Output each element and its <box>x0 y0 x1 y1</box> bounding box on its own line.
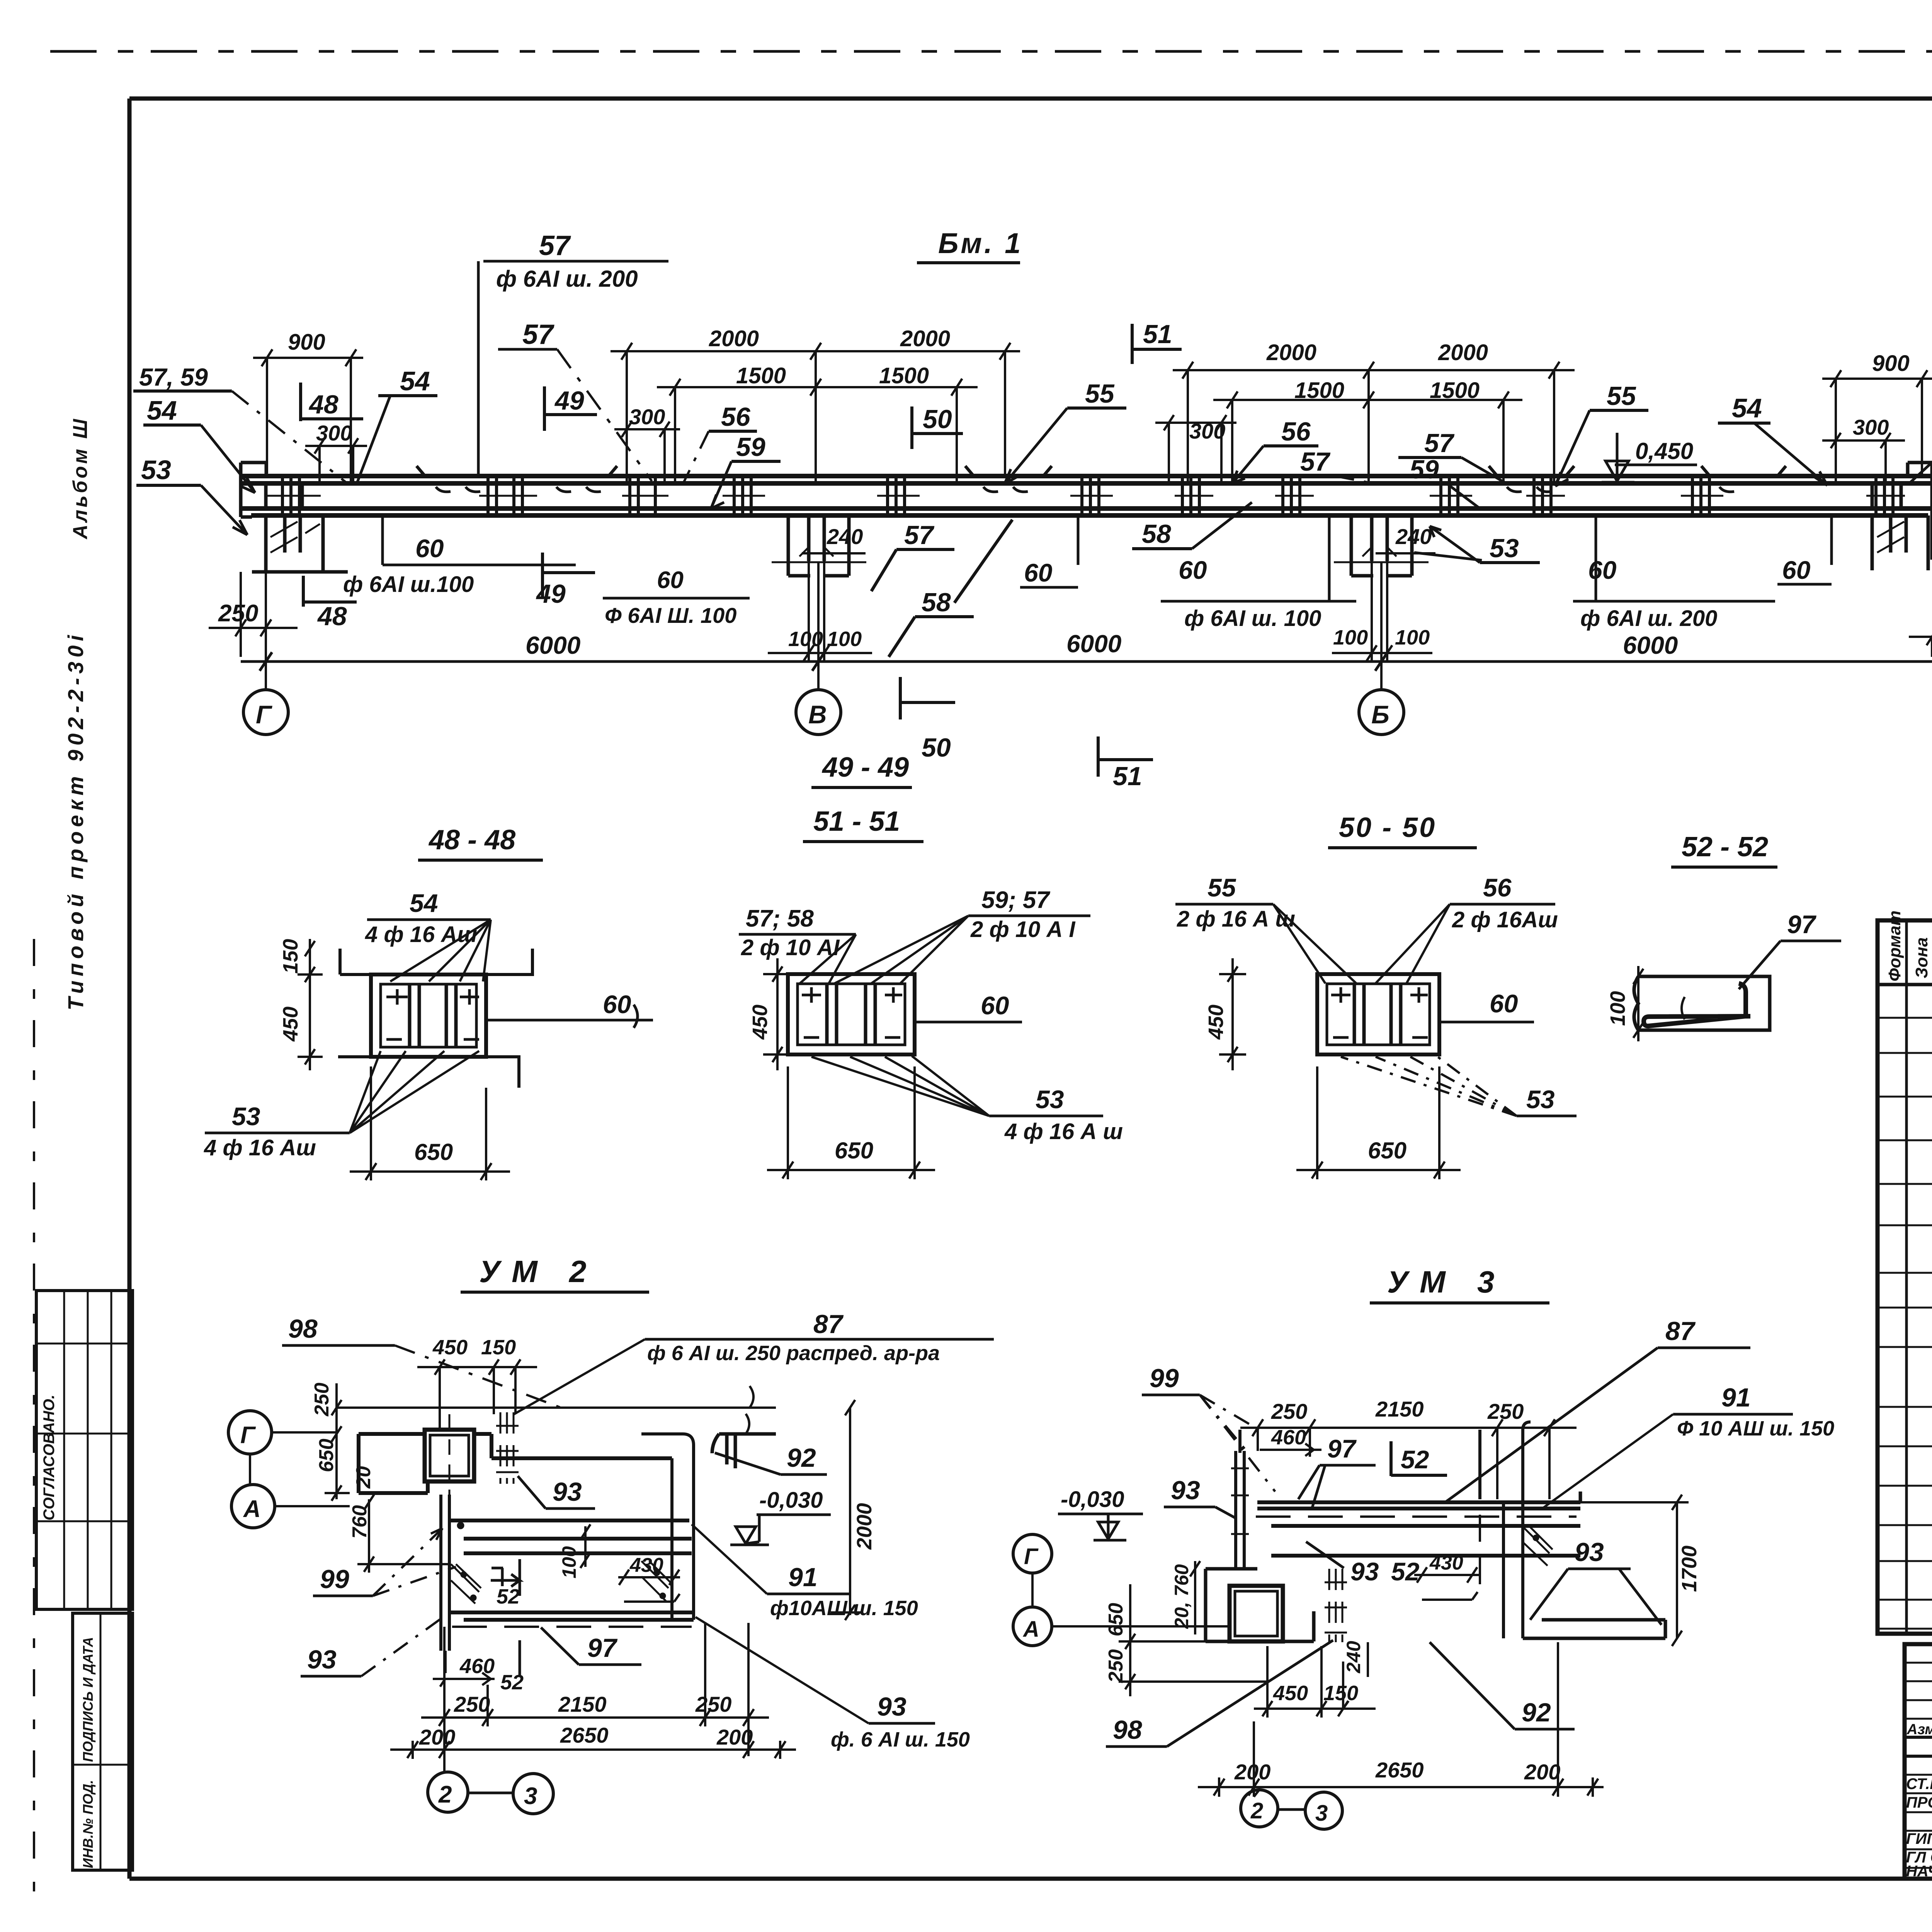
table header bottom line <box>1878 983 1932 986</box>
svg-text:92: 92 <box>1522 1698 1551 1727</box>
svg-text:Бм. 1: Бм. 1 <box>938 227 1023 259</box>
UM2 title <box>461 1254 649 1292</box>
svg-text:2150: 2150 <box>558 1692 607 1716</box>
label 98 <box>282 1314 566 1410</box>
callout 48 left <box>301 383 363 421</box>
svg-text:49: 49 <box>536 579 566 609</box>
label 92 <box>715 1443 827 1475</box>
svg-text:150: 150 <box>481 1336 516 1359</box>
label 59 left-mid <box>711 432 781 509</box>
left group dim 2000+2000 <box>611 326 1020 482</box>
svg-text:6000: 6000 <box>526 631 580 659</box>
svg-text:650: 650 <box>1105 1603 1127 1636</box>
svg-text:55: 55 <box>1207 873 1236 902</box>
svg-text:54: 54 <box>400 366 430 396</box>
svg-text:57: 57 <box>522 319 554 350</box>
label 54 right <box>1718 393 1827 485</box>
svg-text:97: 97 <box>587 1633 618 1663</box>
svg-text:Типовой проект 902-2-30i: Типовой проект 902-2-30i <box>63 631 88 1010</box>
label 93 bottom right leader <box>696 1617 970 1751</box>
svg-text:3: 3 <box>524 1783 537 1810</box>
svg-text:900: 900 <box>288 330 325 355</box>
svg-text:250: 250 <box>695 1692 731 1716</box>
stirrup hatch groups across beam <box>282 476 1893 515</box>
svg-text:99: 99 <box>1150 1364 1179 1393</box>
svg-text:58: 58 <box>1142 519 1171 549</box>
svg-text:250: 250 <box>1105 1649 1127 1683</box>
svg-text:-0,030: -0,030 <box>1061 1487 1124 1512</box>
svg-text:2 ф 16Аш: 2 ф 16Аш <box>1452 907 1558 932</box>
sec48 label 54 4f16A <box>365 889 491 981</box>
UM3 detail <box>1013 1265 1834 1829</box>
svg-text:650: 650 <box>315 1439 338 1472</box>
svg-text:430: 430 <box>1429 1552 1463 1574</box>
label 57 below <box>871 520 954 591</box>
svg-text:ф 6АI ш. 100: ф 6АI ш. 100 <box>1184 606 1321 631</box>
svg-text:60: 60 <box>1588 556 1617 584</box>
svg-text:УМ 3: УМ 3 <box>1387 1265 1506 1299</box>
svg-text:91: 91 <box>788 1563 818 1592</box>
svg-text:48: 48 <box>317 602 347 631</box>
UM3 left wall verticals <box>1236 1430 1244 1569</box>
UM2 dim 52 mid with tick <box>491 1559 520 1608</box>
UM2 dim 2000 right <box>831 1400 876 1620</box>
svg-text:4 ф 16 Аш: 4 ф 16 Аш <box>365 922 477 947</box>
svg-text:450: 450 <box>748 1005 772 1040</box>
label 87 UM3 <box>1445 1316 1750 1502</box>
dim 250 right <box>1909 572 1932 657</box>
svg-text:93: 93 <box>1575 1537 1604 1567</box>
label 91 UM3 <box>1542 1383 1834 1509</box>
svg-text:49: 49 <box>554 386 584 415</box>
svg-text:2000: 2000 <box>1266 340 1316 365</box>
axis circle G UM2 <box>228 1411 336 1485</box>
dim 900 right <box>1822 351 1932 482</box>
annotations below beam <box>209 502 1932 791</box>
label 93 mid lower <box>1306 1542 1420 1586</box>
svg-text:250: 250 <box>1271 1399 1307 1423</box>
axis circle G UM3 <box>1013 1534 1052 1607</box>
left group dim 1500+1500 <box>657 351 978 482</box>
svg-text:57, 59: 57, 59 <box>139 363 208 391</box>
label 93 right <box>1530 1537 1662 1625</box>
UM3 column square <box>1230 1586 1283 1641</box>
callout 51 above beam <box>1132 320 1182 364</box>
callout 49 below + rebar 60 group 2 <box>536 553 750 628</box>
svg-text:4 ф 16 Аш: 4 ф 16 Аш <box>204 1135 316 1160</box>
monolithic joint clip marks on slab <box>436 487 1734 492</box>
section title 52-52 <box>1671 832 1777 867</box>
callout 49 above beam <box>544 386 597 431</box>
section title 50-50 <box>1328 812 1477 848</box>
sec52 label 97 <box>1739 910 1841 989</box>
dim 300 left <box>305 421 367 482</box>
UM3 rebar strip hatched <box>1329 1569 1342 1642</box>
UM2 column square <box>425 1414 474 1495</box>
svg-text:53: 53 <box>1526 1085 1554 1114</box>
sec48 label 60 <box>486 990 653 1028</box>
svg-text:56: 56 <box>1483 873 1512 902</box>
sec52 dim 100 <box>1606 966 1643 1041</box>
UM2 detail <box>228 1254 994 1814</box>
UM3 slab dashed centerline <box>1256 1515 1577 1518</box>
beam bottom chord lines <box>241 509 1932 515</box>
svg-text:53: 53 <box>1036 1085 1064 1114</box>
personnel rows <box>1906 1776 1932 1880</box>
dim 240 stub2 <box>802 524 866 553</box>
svg-text:Зона: Зона <box>1912 937 1931 978</box>
svg-text:650: 650 <box>835 1138 873 1163</box>
svg-text:57: 57 <box>904 520 935 550</box>
sec51 dim 450 <box>748 958 790 1070</box>
svg-text:2 ф 10 А I: 2 ф 10 А I <box>970 917 1076 942</box>
svg-text:55: 55 <box>1607 381 1636 411</box>
svg-text:200: 200 <box>1524 1760 1560 1784</box>
sec48 label 53 4f16A <box>204 1051 479 1160</box>
sec51 body <box>788 974 915 1054</box>
svg-text:2: 2 <box>438 1781 452 1808</box>
sec51 label 57;58 <box>739 905 856 983</box>
axis circle 2 <box>428 1772 468 1812</box>
label 99 UM3 <box>1142 1364 1275 1492</box>
UM3 lower-left outline <box>1206 1569 1314 1641</box>
svg-text:52: 52 <box>1391 1557 1420 1586</box>
dimensions above beam <box>133 230 1932 535</box>
label 57,59 right <box>1909 401 1932 484</box>
svg-text:150: 150 <box>279 939 302 974</box>
svg-text:93: 93 <box>1350 1557 1379 1586</box>
stirrup cross ties <box>267 495 1905 497</box>
svg-text:93: 93 <box>877 1692 906 1721</box>
UM3 left dims 650 250 20,760 <box>1105 1561 1267 1696</box>
section title 48-48 <box>418 825 543 860</box>
svg-text:6000: 6000 <box>1066 630 1121 658</box>
svg-text:ф. 6 АI ш. 150: ф. 6 АI ш. 150 <box>831 1728 970 1751</box>
dim 900 left <box>253 330 363 482</box>
svg-text:450: 450 <box>279 1007 302 1042</box>
svg-text:97: 97 <box>1787 910 1817 939</box>
label 93 lower-left <box>301 1619 440 1676</box>
UM3 slab horizontals <box>1257 1502 1580 1556</box>
axis circle B <box>1359 690 1404 735</box>
beam top chord lines <box>241 476 1932 483</box>
sec51 label 60 <box>915 991 1022 1022</box>
beam Bm.1 title <box>917 227 1023 263</box>
svg-text:92: 92 <box>787 1443 816 1473</box>
UM2 hatch patch left <box>451 1564 481 1604</box>
svg-text:20: 20 <box>352 1466 375 1489</box>
label 58 below-left <box>889 520 1012 657</box>
dim 300 right-mid <box>1155 415 1236 482</box>
sec50 label 55 <box>1175 873 1356 983</box>
label 99 <box>313 1522 464 1596</box>
svg-text:93: 93 <box>1171 1476 1200 1505</box>
svg-text:100: 100 <box>1395 626 1430 649</box>
svg-text:59; 57: 59; 57 <box>981 887 1050 913</box>
svg-text:58: 58 <box>922 588 951 617</box>
beam left end step <box>241 463 266 517</box>
svg-text:2: 2 <box>1250 1798 1263 1823</box>
section mark 51 below <box>1098 736 1153 791</box>
svg-text:52: 52 <box>1401 1445 1429 1474</box>
svg-text:1500: 1500 <box>879 363 929 388</box>
svg-text:НАЧ ОТД: НАЧ ОТД <box>1906 1863 1932 1880</box>
sec48 dim 650 <box>350 1066 510 1180</box>
svg-text:60: 60 <box>603 990 631 1019</box>
wall stub 3 below beam <box>1351 515 1412 576</box>
UM2 wall vertical double line <box>441 1495 449 1673</box>
dim 450 150 top <box>417 1336 537 1430</box>
stub3 dim ticks <box>1334 547 1429 562</box>
label 91 f10 <box>692 1524 918 1620</box>
svg-text:54: 54 <box>147 395 177 425</box>
UM2 right verticals <box>641 1434 694 1620</box>
label 57,59 far left <box>133 363 348 484</box>
UM3 top dims 250 2150 250 <box>1240 1397 1577 1499</box>
label 87 with note <box>514 1310 994 1414</box>
pier hatch right <box>1877 522 1904 553</box>
svg-text:СОГЛАСОВАНО.: СОГЛАСОВАНО. <box>41 1395 58 1520</box>
UM2 slab horizontals <box>451 1520 694 1620</box>
label 60 tick mid <box>1020 515 1078 587</box>
dim 300 left-mid <box>614 405 680 482</box>
svg-text:Г: Г <box>256 700 272 729</box>
beam Bm.1 body <box>241 463 1932 576</box>
slab recess notches on top line <box>417 466 1786 476</box>
sec48 body <box>338 949 532 1088</box>
label 54 far left <box>143 395 255 493</box>
svg-text:2000: 2000 <box>1438 340 1488 365</box>
svg-text:ф 6АI ш.100: ф 6АI ш.100 <box>343 572 474 597</box>
sec50 label 60 <box>1439 989 1534 1022</box>
svg-text:900: 900 <box>1872 351 1910 376</box>
header row labels <box>1906 1721 1932 1738</box>
svg-text:УМ 2: УМ 2 <box>479 1254 598 1289</box>
svg-text:48: 48 <box>308 390 338 419</box>
svg-text:54: 54 <box>1732 393 1762 423</box>
svg-text:50 - 50: 50 - 50 <box>1339 812 1436 843</box>
sec50 label 53 <box>1341 1056 1577 1116</box>
svg-text:20, 760: 20, 760 <box>1171 1564 1192 1629</box>
rebar 60 label group 3 <box>1161 515 1356 631</box>
svg-text:200: 200 <box>716 1725 753 1749</box>
svg-text:52: 52 <box>497 1585 520 1608</box>
left margin stamps <box>36 417 133 1870</box>
label 93 UM3 left <box>1164 1476 1236 1519</box>
svg-text:2000: 2000 <box>709 326 759 351</box>
svg-text:А: А <box>1022 1617 1039 1642</box>
svg-text:450: 450 <box>1273 1682 1308 1705</box>
svg-text:87: 87 <box>1665 1316 1696 1346</box>
svg-text:87: 87 <box>813 1310 844 1339</box>
svg-text:А: А <box>243 1496 261 1522</box>
svg-text:450: 450 <box>432 1336 468 1359</box>
svg-text:3: 3 <box>1315 1801 1328 1826</box>
svg-text:49 - 49: 49 - 49 <box>821 752 909 783</box>
svg-text:55: 55 <box>1085 379 1115 408</box>
label 93 mid <box>518 1476 595 1509</box>
sec48 dim 450 <box>279 975 323 1070</box>
UM3 dim 1700 right <box>1580 1495 1701 1646</box>
left support pier below beam <box>252 483 348 572</box>
UM2 dim 100 mid <box>558 1524 590 1578</box>
svg-text:ПРОВЕР.: ПРОВЕР. <box>1906 1794 1932 1811</box>
svg-text:50: 50 <box>923 405 952 434</box>
UM2 dim 460+52 lower <box>433 1640 524 1694</box>
wall stub 2 below beam <box>788 515 849 576</box>
svg-text:56: 56 <box>721 402 751 432</box>
axis circle 3 <box>468 1774 553 1814</box>
axis circle 2 UM3 <box>1241 1790 1278 1827</box>
dim 6000 span G-V <box>241 631 825 671</box>
title block <box>1905 1644 1932 1932</box>
sheet perforation dashed top line <box>50 50 1932 53</box>
UM3 dims 200 2650 200 <box>1198 1642 1604 1797</box>
svg-text:650: 650 <box>414 1139 453 1165</box>
dim 250 left <box>209 572 298 657</box>
svg-text:53: 53 <box>1490 534 1519 563</box>
outer dashed left lower edge <box>33 939 35 1913</box>
sec51 label 53 4f16A <box>811 1056 1123 1144</box>
svg-text:2 ф 10 АI: 2 ф 10 АI <box>741 935 840 960</box>
svg-text:99: 99 <box>320 1565 349 1594</box>
UM3 dim 460 and labels 97 52 <box>1260 1426 1447 1509</box>
svg-text:200: 200 <box>1234 1760 1270 1784</box>
svg-text:В: В <box>808 700 827 729</box>
section title 51-51 <box>803 806 923 842</box>
svg-text:100: 100 <box>1333 626 1368 649</box>
label 57 over 59 center-right <box>1398 429 1507 509</box>
svg-text:СТ.ИНЖЕН: СТ.ИНЖЕН <box>1906 1776 1932 1793</box>
label 60 tick right <box>1777 515 1832 584</box>
sec50 label 56 <box>1376 873 1558 983</box>
label 54 left-top <box>357 366 437 482</box>
dim 6000 span B-A <box>1381 631 1932 671</box>
section mark 50 below <box>900 677 955 762</box>
table outer frame <box>1878 920 1932 1634</box>
svg-text:60: 60 <box>1782 556 1811 584</box>
svg-text:57: 57 <box>1300 447 1331 476</box>
UM3 hatch patch right of 430 <box>1522 1526 1553 1566</box>
svg-text:760: 760 <box>349 1505 371 1539</box>
sec51 label 59;57 <box>835 887 1090 983</box>
label 92 UM3 <box>1430 1642 1575 1729</box>
svg-text:Ф 6АI Ш. 100: Ф 6АI Ш. 100 <box>605 603 736 628</box>
svg-text:51: 51 <box>1143 320 1172 349</box>
svg-text:0,450: 0,450 <box>1635 438 1693 464</box>
svg-text:300: 300 <box>1853 415 1889 439</box>
svg-text:200: 200 <box>419 1725 455 1749</box>
label 56 right-mid <box>1233 417 1318 483</box>
svg-text:2000: 2000 <box>853 1503 876 1550</box>
section title 49-49 <box>811 752 912 787</box>
UM3 dashed axis vertical <box>1479 1515 1481 1584</box>
svg-text:ГИП: ГИП <box>1906 1830 1932 1847</box>
rebar 57 mid-left callout <box>498 319 652 481</box>
svg-text:240: 240 <box>827 524 863 549</box>
axis line G <box>265 572 267 690</box>
UM2 rebar strip 93 hatched <box>500 1412 514 1484</box>
svg-text:60: 60 <box>1490 989 1518 1018</box>
svg-text:250: 250 <box>1487 1399 1524 1423</box>
dim 240 stub3 <box>1376 524 1435 553</box>
UM2 dim 430 <box>618 1554 680 1602</box>
svg-text:60: 60 <box>415 534 444 563</box>
svg-text:Б: Б <box>1371 700 1389 729</box>
svg-text:Ф 10 АШ ш. 150: Ф 10 АШ ш. 150 <box>1677 1417 1834 1440</box>
svg-text:4 ф 16 А ш: 4 ф 16 А ш <box>1004 1119 1123 1144</box>
label 97 <box>541 1628 641 1665</box>
svg-text:1500: 1500 <box>736 363 786 388</box>
svg-text:100: 100 <box>827 628 862 651</box>
svg-text:Г: Г <box>240 1422 256 1449</box>
svg-text:240: 240 <box>1395 524 1432 549</box>
svg-text:ф 6АI ш. 200: ф 6АI ш. 200 <box>496 266 638 292</box>
dim 6000 span V-B <box>818 630 1388 671</box>
svg-text:53: 53 <box>141 455 171 485</box>
UM2 hatch patch right <box>641 1561 672 1602</box>
table row lines <box>1878 1018 1932 1629</box>
svg-text:6000: 6000 <box>1623 631 1678 659</box>
level mark 0.450 <box>1602 433 1697 482</box>
pier hatch left <box>270 522 320 553</box>
svg-text:2650: 2650 <box>1375 1758 1424 1782</box>
axis line B <box>1380 562 1383 690</box>
level mark -0,030 UM3 <box>1058 1487 1143 1540</box>
svg-text:ф 6АI ш. 200: ф 6АI ш. 200 <box>1580 606 1717 631</box>
svg-text:51: 51 <box>1113 762 1142 791</box>
label 55 right <box>1555 381 1648 486</box>
sec50 body <box>1317 974 1439 1054</box>
callout 48 below <box>303 576 357 631</box>
svg-text:460: 460 <box>1271 1426 1306 1449</box>
svg-text:Формат: Формат <box>1885 910 1904 981</box>
axis circle V <box>796 690 841 735</box>
svg-text:100: 100 <box>558 1546 580 1578</box>
beam right end step <box>1908 463 1932 526</box>
label 55 left-of-center <box>1005 379 1126 484</box>
rebar 60 label group 1 <box>343 515 576 597</box>
svg-text:Азм: Азм <box>1906 1721 1932 1738</box>
title block left grid horizontals <box>1905 1663 1932 1719</box>
svg-text:98: 98 <box>288 1314 318 1344</box>
level mark -0,030 UM2 <box>730 1488 831 1545</box>
svg-text:430: 430 <box>629 1554 663 1577</box>
svg-text:60: 60 <box>1179 556 1207 584</box>
UM3 dim 430 <box>1414 1552 1480 1600</box>
axis circle A UM3 <box>1013 1607 1230 1646</box>
label 98 UM3 <box>1106 1640 1333 1747</box>
svg-text:460: 460 <box>459 1655 495 1678</box>
svg-text:50: 50 <box>922 733 951 762</box>
svg-text:Альбом Ш: Альбом Ш <box>69 417 92 540</box>
svg-text:93: 93 <box>553 1477 582 1507</box>
svg-text:250: 250 <box>311 1383 333 1417</box>
stub2 dim ticks <box>772 547 866 562</box>
svg-text:57: 57 <box>539 230 571 261</box>
stub2 dim 100 100 <box>768 561 872 662</box>
svg-text:54: 54 <box>410 889 438 917</box>
rebar 60 label group 4 <box>1573 515 1775 631</box>
podpis i data block <box>73 1613 133 1870</box>
UM2 92 break mark <box>746 1414 749 1434</box>
svg-text:-0,030: -0,030 <box>759 1488 823 1513</box>
svg-text:ф 6 АI ш. 250 распред. ар-ра: ф 6 АI ш. 250 распред. ар-ра <box>647 1342 940 1365</box>
svg-text:60: 60 <box>657 567 684 594</box>
label 53 far left <box>136 455 247 535</box>
UM2 right wall 92 corner <box>712 1434 776 1468</box>
svg-text:250: 250 <box>454 1692 490 1716</box>
